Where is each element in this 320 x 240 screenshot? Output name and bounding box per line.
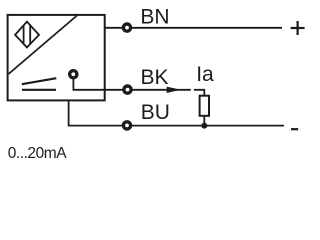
current arrow Ia (167, 87, 181, 93)
svg-text:BN: BN (140, 6, 169, 29)
diagonal divider (9, 16, 78, 75)
node BU terminal (123, 122, 130, 129)
diamond inner line right (29, 25, 31, 44)
BN wire (105, 27, 282, 29)
analog output symbol horizontal line (22, 89, 56, 91)
svg-text:BK: BK (141, 66, 169, 89)
plus terminal (291, 21, 305, 35)
svg-text:0...20mA: 0...20mA (8, 145, 68, 162)
analog output symbol slanted line (22, 78, 57, 84)
diamond inner line left (23, 25, 25, 44)
node BN terminal (123, 24, 130, 31)
junction dot (201, 123, 207, 129)
wire from output terminal down to BK line (73, 80, 190, 90)
load resistor (200, 96, 209, 116)
BK wire to load (194, 90, 204, 96)
output terminal circle U-out (70, 71, 77, 78)
node BK terminal (124, 86, 131, 93)
svg-text:BU: BU (141, 101, 170, 124)
svg-text:Ia: Ia (196, 63, 214, 86)
sensor body box (8, 15, 105, 101)
BU wire from box bottom (69, 100, 284, 126)
proximity sensor diamond symbol (15, 22, 39, 48)
minus terminal (291, 128, 298, 130)
resistor bottom lead (203, 116, 205, 126)
